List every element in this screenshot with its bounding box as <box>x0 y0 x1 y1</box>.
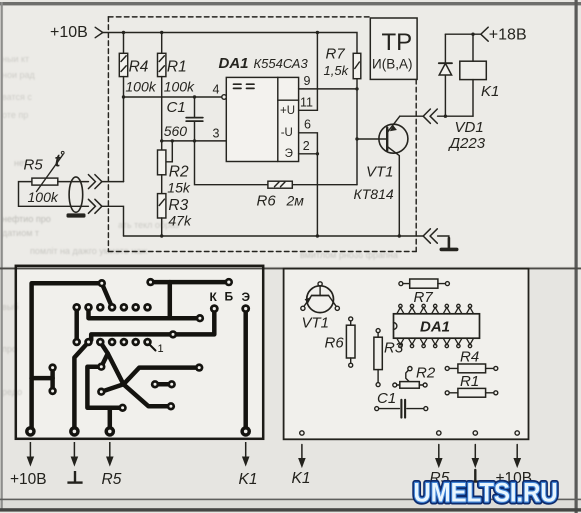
resistor R4 <box>119 33 156 182</box>
svg-text:R4: R4 <box>129 58 149 75</box>
trace star node <box>100 342 199 406</box>
svg-text:K1: K1 <box>239 471 258 488</box>
node +18V <box>445 27 526 44</box>
svg-text:100k: 100k <box>28 189 59 205</box>
svg-text:VT1: VT1 <box>302 315 330 332</box>
pin1 tick <box>150 345 156 351</box>
svg-text:C1: C1 <box>377 390 396 407</box>
svg-text:R7: R7 <box>326 46 346 63</box>
watermark umeltsi.ru <box>414 478 558 508</box>
svg-text:11: 11 <box>300 96 313 110</box>
svg-text:UMELTSI.RU: UMELTSI.RU <box>414 478 558 508</box>
wire ground rail <box>102 206 423 237</box>
pin 2 wire <box>299 139 319 236</box>
svg-text:R3: R3 <box>168 197 188 214</box>
svg-text:ныи кт: ныи кт <box>2 54 29 64</box>
svg-text:+10В: +10В <box>10 471 47 488</box>
connector chevrons ground out <box>423 229 437 243</box>
svg-text:R5: R5 <box>102 471 122 488</box>
svg-text:И(В,А): И(В,А) <box>372 57 412 72</box>
svg-text:ватся с: ватся с <box>2 92 32 102</box>
thermistor R5 <box>24 151 65 206</box>
wire emitter to relay node <box>438 115 473 118</box>
TP indicator box <box>370 18 417 79</box>
trace jumper pair <box>155 382 172 387</box>
trace E to K1 <box>243 309 248 432</box>
svg-text:+U: +U <box>280 105 295 117</box>
other pads <box>98 279 106 287</box>
trace ic link <box>74 307 79 342</box>
svg-text:100k: 100k <box>164 78 195 94</box>
svg-text:ТР: ТР <box>382 29 413 56</box>
pads ic row1 <box>25 278 251 437</box>
svg-text:+18В: +18В <box>489 27 527 44</box>
resistor R7 <box>324 46 361 91</box>
pin 4 <box>213 83 220 97</box>
faint bleedthrough text texture <box>2 54 398 397</box>
svg-text:K1: K1 <box>481 83 499 100</box>
svg-text:6: 6 <box>304 118 311 132</box>
pcb pin arrows <box>28 442 249 465</box>
trimmer R2 placement <box>393 365 436 389</box>
svg-text:Д223: Д223 <box>448 135 486 152</box>
pads ic row2 <box>72 338 81 347</box>
resistor R7 placement <box>399 279 450 306</box>
pin 3 <box>213 127 220 141</box>
resistor R6 feedback <box>195 141 358 210</box>
svg-text:R6: R6 <box>325 335 345 352</box>
connector chevrons emitter out <box>423 109 437 123</box>
relay K1 coil <box>460 34 500 116</box>
resistor R1 <box>158 33 196 141</box>
svg-text:9: 9 <box>304 74 311 88</box>
svg-text:R7: R7 <box>414 289 434 306</box>
svg-text:К: К <box>210 290 218 304</box>
IC DA1 placement <box>394 314 480 338</box>
capacitor C1 placement <box>375 390 428 418</box>
svg-text:560: 560 <box>164 123 188 139</box>
wire +10V rail <box>103 31 357 54</box>
resistor R6 placement <box>325 317 356 367</box>
svg-text:КТ814: КТ814 <box>354 186 394 202</box>
svg-text:47k: 47k <box>168 213 192 229</box>
svg-text:2: 2 <box>303 139 310 153</box>
svg-text:нои рад: нои рад <box>2 70 36 80</box>
photo strip separator <box>0 268 581 270</box>
svg-text:R1: R1 <box>167 58 187 75</box>
pin 11 wire <box>299 33 318 111</box>
wire output node to base <box>355 89 387 185</box>
svg-text:нефтио про: нефтио про <box>2 214 51 224</box>
placement pin labels <box>292 470 533 487</box>
connector chevrons R5 top <box>88 175 102 189</box>
IC DA1 pins <box>397 304 474 347</box>
trace ground <box>74 342 88 431</box>
placement board bottom holes <box>300 431 520 435</box>
pin 9 wire <box>299 74 357 89</box>
svg-text:Э: Э <box>242 290 251 304</box>
transistor VT1 top view <box>301 282 340 332</box>
placement pin arrows <box>299 445 520 467</box>
svg-text:K1: K1 <box>292 470 311 487</box>
svg-text:VT1: VT1 <box>366 164 394 181</box>
big terminal pads <box>25 426 36 437</box>
svg-text:R2: R2 <box>169 164 189 181</box>
pad holes <box>29 281 248 434</box>
svg-text:R1: R1 <box>460 373 479 390</box>
resistor R1 placement <box>445 373 498 397</box>
svg-text:DA1: DA1 <box>420 319 450 336</box>
svg-text:-U: -U <box>281 127 293 139</box>
PCB board outline <box>16 266 263 439</box>
labels K B E <box>158 290 251 356</box>
node +10V input label <box>50 24 103 41</box>
wire pin4 net <box>122 95 227 100</box>
ground symbol right <box>438 236 457 249</box>
svg-text:3: 3 <box>213 127 220 141</box>
svg-text:Э: Э <box>285 148 293 160</box>
pin 6 wire <box>299 118 318 154</box>
resistor R3 placement <box>374 329 404 387</box>
svg-text:1,5k: 1,5k <box>324 63 350 78</box>
svg-text:R4: R4 <box>460 349 479 366</box>
svg-text:1: 1 <box>158 343 164 355</box>
trace +10V left <box>32 283 113 431</box>
svg-text:редо: редо <box>2 387 22 397</box>
svg-text:DA1: DA1 <box>219 55 249 72</box>
diode VD1 <box>439 34 486 152</box>
resistor R4 placement <box>445 349 498 373</box>
trace B top <box>89 282 229 318</box>
svg-text:+10В: +10В <box>50 24 88 41</box>
svg-text:Б: Б <box>225 290 234 304</box>
cable shield oval <box>67 177 86 218</box>
svg-text:помліт на дажго умиоте наж: помліт на дажго умиоте наж <box>30 246 147 256</box>
svg-text:4: 4 <box>213 83 220 97</box>
svg-text:R5: R5 <box>24 157 44 174</box>
connector chevrons R5 bottom <box>88 199 102 213</box>
svg-text:оте пр: оте пр <box>2 110 28 120</box>
svg-text:15k: 15k <box>167 180 191 196</box>
dashed enclosure box <box>108 17 416 252</box>
trace C shape R5 <box>87 367 122 432</box>
svg-text:датиом т: датиом т <box>2 228 39 238</box>
resistor R2 <box>158 141 191 196</box>
capacitor C1 <box>164 97 203 141</box>
svg-text:100k: 100k <box>125 78 156 94</box>
svg-text:R2: R2 <box>416 365 436 382</box>
svg-text:R3: R3 <box>384 340 404 357</box>
svg-text:C1: C1 <box>167 99 186 116</box>
svg-text:VD1: VD1 <box>455 119 484 136</box>
wire pin3 net <box>160 139 226 162</box>
wire R5 loop <box>19 182 124 207</box>
resistor R3 <box>158 194 192 236</box>
svg-text:2м: 2м <box>286 193 305 209</box>
trace K <box>91 309 214 340</box>
pcb pin labels <box>10 471 257 488</box>
transistor Q1 VT1 <box>354 116 424 236</box>
svg-text:К554СА3: К554СА3 <box>254 56 309 71</box>
svg-text:R6: R6 <box>257 193 277 210</box>
placement board outline <box>284 269 529 440</box>
op-amp comparator U1 DA1 box <box>219 55 309 162</box>
